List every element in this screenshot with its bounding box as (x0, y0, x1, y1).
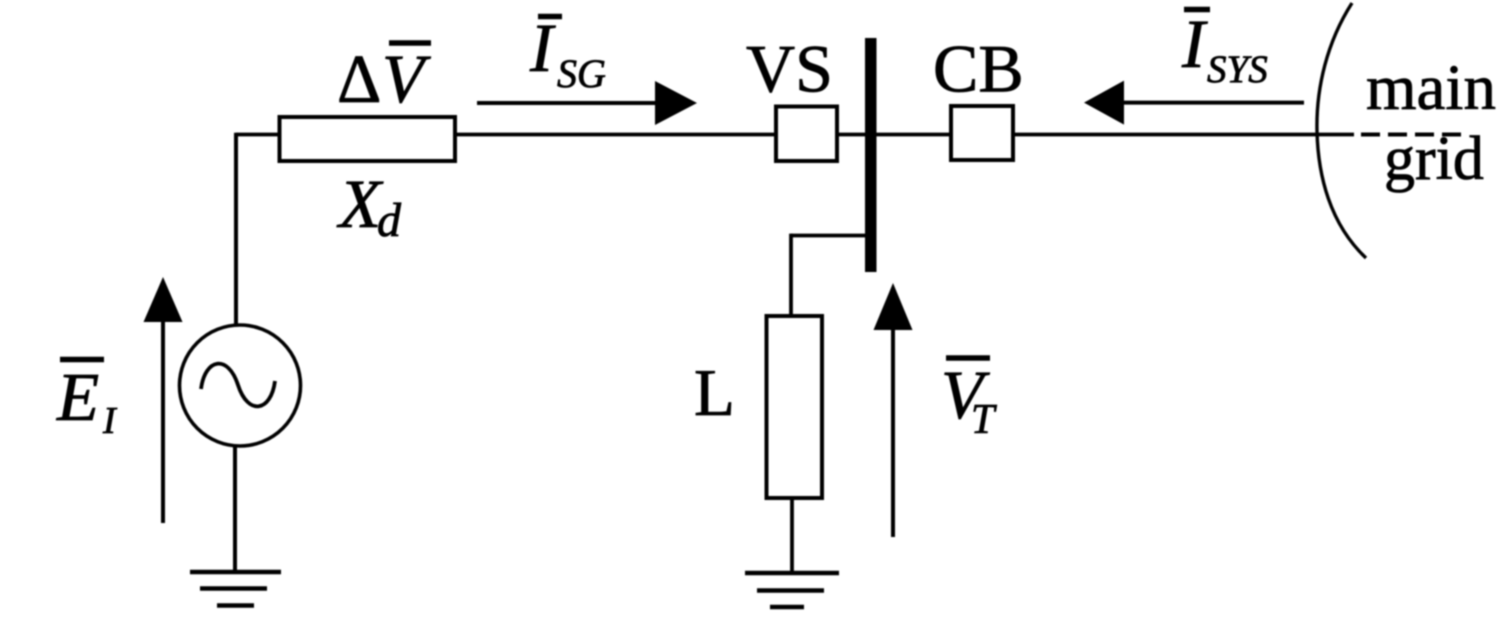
svg-text:d: d (377, 194, 402, 247)
svg-text:main: main (1366, 52, 1496, 124)
svg-text:SYS: SYS (1207, 48, 1268, 91)
svg-text:E: E (56, 359, 99, 435)
svg-text:L: L (694, 356, 735, 430)
svg-text:T: T (971, 397, 997, 443)
svg-text:SG: SG (557, 51, 606, 96)
svg-text:I: I (529, 10, 556, 86)
svg-text:grid: grid (1384, 125, 1484, 193)
svg-text:I: I (1181, 6, 1208, 82)
svg-text:CB: CB (933, 31, 1024, 107)
svg-text:V: V (382, 41, 431, 117)
svg-text:I: I (102, 400, 118, 442)
svg-text:Δ: Δ (337, 41, 381, 117)
svg-text:VS: VS (746, 31, 833, 107)
